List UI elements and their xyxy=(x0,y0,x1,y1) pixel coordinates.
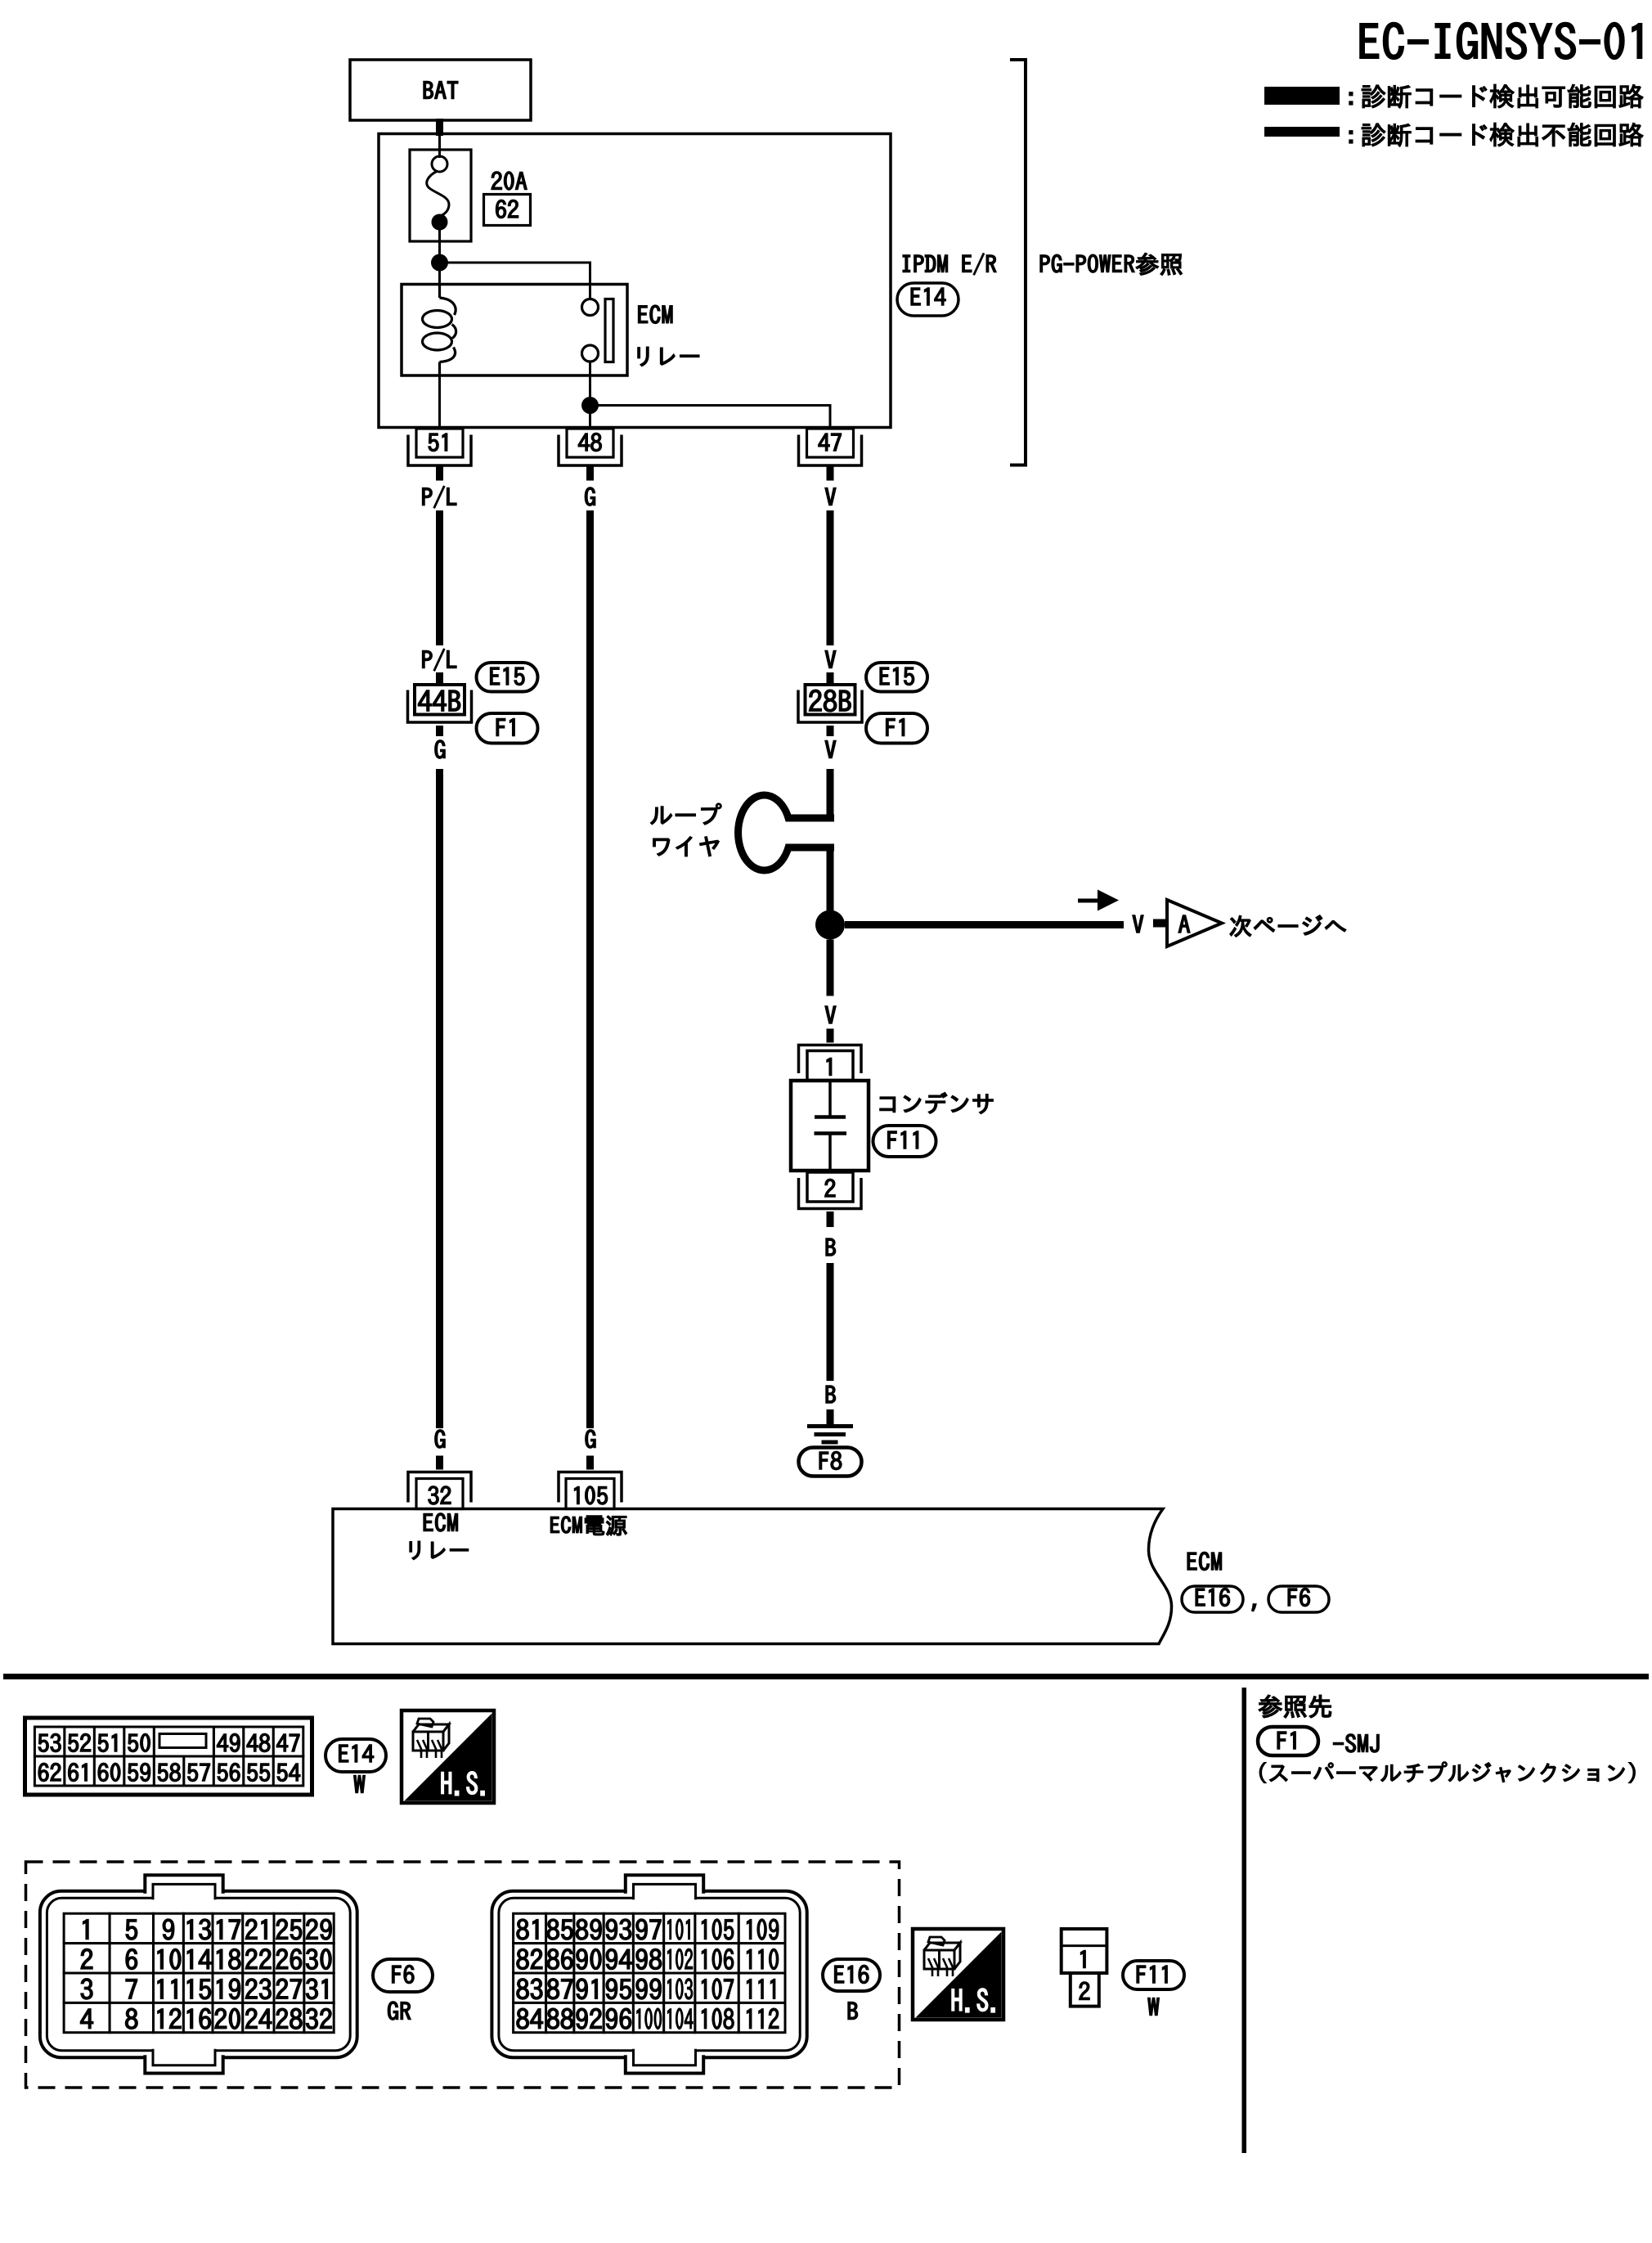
label B below capacitor xyxy=(826,1238,836,1256)
connector E15 oval right xyxy=(866,663,927,692)
label P/L above 44B xyxy=(423,649,456,671)
wire G 48 to 105 xyxy=(586,510,594,1428)
comma xyxy=(1252,1604,1256,1611)
off-page connector A xyxy=(1167,900,1222,946)
label ECM power pin105 xyxy=(550,1516,626,1535)
ECM pin 32 xyxy=(408,1472,471,1503)
connector E16 oval view xyxy=(823,1959,880,1991)
arrow to next page xyxy=(1078,899,1101,903)
label B E16 xyxy=(848,2002,858,2019)
legend thick line xyxy=(1264,87,1340,105)
wire V 28B to loop xyxy=(827,769,834,821)
label P/L pin 51 xyxy=(423,486,456,508)
wire G 44B to ECM pin 32 xyxy=(436,769,443,1428)
label IPDM E/R xyxy=(903,254,996,275)
capacitor pin 1 xyxy=(799,1045,862,1074)
IPDM E/R box xyxy=(379,134,891,428)
label ECM relay pin32 xyxy=(424,1513,457,1531)
ECM pin 105 xyxy=(559,1472,622,1503)
connector E14 terminal view xyxy=(25,1718,312,1795)
reference divider line xyxy=(1242,1688,1247,2153)
label G above pin 32 xyxy=(435,1430,445,1448)
label V above capacitor xyxy=(825,1006,836,1023)
relay contact xyxy=(589,285,591,299)
label capacitor xyxy=(880,1093,993,1114)
title EC-IGNSYS-01 xyxy=(1360,23,1641,59)
connector F6 oval ref xyxy=(1268,1586,1329,1612)
wire relay to pin 51 xyxy=(438,375,441,428)
legend thin line xyxy=(1264,127,1340,137)
fuse label 20A xyxy=(492,172,527,190)
connector E14 oval view xyxy=(325,1739,386,1772)
wire B to ground xyxy=(827,1263,834,1381)
capacitor C F11 body xyxy=(791,1081,869,1171)
wire relay to pin 48 xyxy=(589,362,591,428)
connector F11 oval xyxy=(873,1126,936,1157)
SMJ connector 28B xyxy=(806,685,855,715)
bracket PG-POWER xyxy=(1010,60,1026,465)
wire fuse to junction xyxy=(438,223,441,263)
wire loop to junction A xyxy=(827,844,834,925)
label G below 44B xyxy=(435,740,445,758)
label reference heading xyxy=(1259,1695,1331,1718)
junction dot 48 xyxy=(581,397,599,414)
IPDM pin 47 xyxy=(807,429,854,457)
legend label undetectable circuit xyxy=(1349,131,1353,143)
label G pin 48 xyxy=(585,488,595,506)
fuse number box 62 xyxy=(484,195,531,226)
label W E14 xyxy=(354,1775,366,1792)
horizontal divider xyxy=(3,1674,1649,1679)
label G above pin 105 xyxy=(586,1430,595,1448)
wire P/L 51 to 44B xyxy=(436,510,443,645)
wire to next page xyxy=(845,921,1124,928)
label W F11 xyxy=(1148,1998,1160,2015)
loop wire xyxy=(738,795,834,870)
ECM box xyxy=(333,1509,1172,1644)
IPDM pin 48 xyxy=(567,429,613,457)
relay label ECM xyxy=(639,305,672,323)
wire stub above pin 105 xyxy=(586,1456,594,1470)
connector F1 oval right xyxy=(866,713,927,744)
connector F6 oval view xyxy=(373,1959,433,1992)
dashed box xyxy=(26,1862,900,2088)
ground F8 xyxy=(827,1409,834,1425)
relay coil xyxy=(438,285,441,299)
wire stub above 44B xyxy=(436,672,443,685)
wire junction to pin 47 xyxy=(590,406,831,429)
label loop wire xyxy=(651,803,721,825)
junction dot below fuse xyxy=(431,254,448,272)
connector F1 oval ref xyxy=(1258,1727,1318,1755)
junction dot A xyxy=(815,910,845,940)
connector F8 oval xyxy=(799,1448,862,1477)
capacitor pin 2 xyxy=(807,1172,853,1202)
wire junction to relay contact xyxy=(440,263,590,299)
connector F6 terminal view xyxy=(40,1891,357,2057)
connector E14 oval xyxy=(897,283,958,316)
wire stub above pin 32 xyxy=(436,1456,443,1470)
label ECM right xyxy=(1187,1552,1221,1570)
connector F1 oval left xyxy=(477,713,538,744)
label V pin 47 xyxy=(825,488,836,505)
wire stub above 28B xyxy=(827,672,834,685)
fuse 20A 62 xyxy=(410,150,471,241)
label GR F6 xyxy=(388,2002,411,2020)
wire V 47 to 28B xyxy=(827,510,834,645)
relay ECM relay box xyxy=(402,285,627,376)
legend label detectable circuit xyxy=(1349,92,1353,105)
label V next page xyxy=(1133,915,1143,933)
inspection icon H.S. 2 xyxy=(913,1929,1003,2020)
connector F11 view xyxy=(1062,1929,1107,1973)
SMJ connector 44B xyxy=(415,685,465,715)
inspection icon H.S. 1 xyxy=(402,1710,494,1803)
IPDM pin 51 xyxy=(416,429,463,457)
label V above 28B xyxy=(825,650,836,668)
wire junction A to capacitor xyxy=(827,940,834,996)
dash before A triangle xyxy=(1153,919,1165,928)
wire stub above cap pin 1 xyxy=(827,1029,834,1043)
label super multiple junction xyxy=(1259,1762,1635,1783)
connector E16 terminal view xyxy=(492,1891,806,2057)
wire to fuse xyxy=(438,134,441,158)
label B above ground xyxy=(826,1386,836,1403)
battery BAT xyxy=(350,60,531,120)
label PG-POWER reference xyxy=(1040,253,1182,275)
label V below 28B xyxy=(825,740,836,757)
connector E16 oval ref xyxy=(1182,1586,1243,1612)
wire BAT to IPDM E/R xyxy=(436,119,443,136)
connector F11 oval view xyxy=(1123,1961,1184,1989)
label next page xyxy=(1230,915,1346,937)
label -SMJ xyxy=(1333,1734,1379,1752)
wire junction to relay coil xyxy=(438,263,441,285)
connector E15 oval left xyxy=(477,663,538,692)
